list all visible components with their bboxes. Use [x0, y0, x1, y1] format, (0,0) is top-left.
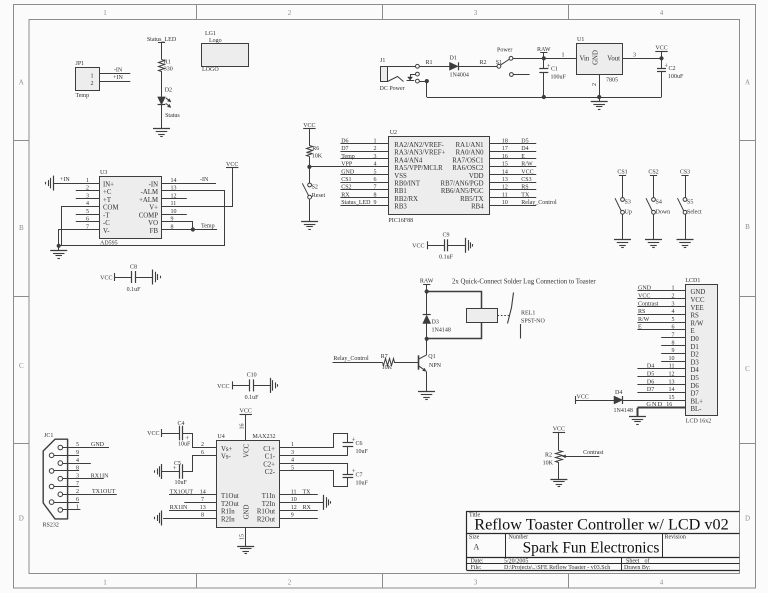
wire switch S3 to ground: [622, 214, 624, 240]
U2 left pin 2 wire (D7): [340, 151, 388, 153]
U4 pin 14 wire TX1OUT: [169, 494, 217, 496]
svg-text:CS3: CS3: [521, 177, 531, 183]
wire D4 to LCD1 pin 15: [623, 400, 686, 402]
svg-text:VCC: VCC: [553, 427, 565, 433]
wire C6 to U4 pin 3: [347, 446, 349, 455]
LCD1 pin 12 wire (D5): [637, 376, 685, 378]
ground right of U4 pin 10: [323, 495, 325, 510]
wire R1 to D2: [161, 71, 163, 97]
wire C8 to ground: [135, 277, 153, 279]
wire J1 sleeve to ground bus: [419, 81, 427, 83]
U4 pin 4 wire to C7: [279, 463, 348, 465]
net flag Status_LED: [158, 42, 165, 44]
svg-text:Vin: Vin: [580, 56, 590, 63]
JC1 pin 8 wire: [54, 470, 79, 472]
junction VCC C2: [659, 56, 663, 60]
svg-text:D6: D6: [647, 379, 654, 385]
U2 right pin 16 wire (E): [489, 158, 536, 160]
ground below S4: [645, 239, 662, 241]
svg-text:Status_LED: Status_LED: [341, 200, 371, 206]
svg-text:RX1IN: RX1IN: [91, 473, 109, 479]
svg-text:8: 8: [201, 513, 204, 519]
svg-text:4: 4: [76, 458, 79, 464]
svg-text:U4: U4: [217, 434, 224, 440]
svg-text:D4: D4: [521, 146, 528, 152]
switch S4 top circle: [652, 198, 656, 202]
svg-text:9: 9: [374, 200, 377, 206]
svg-text:10K: 10K: [312, 153, 323, 159]
ground right of C9: [465, 238, 467, 253]
svg-text:1N4004: 1N4004: [450, 73, 469, 79]
capacitor C8 0.1uF: [131, 271, 133, 283]
svg-text:E: E: [691, 328, 695, 335]
wire junction to S2: [309, 167, 311, 183]
svg-text:8: 8: [374, 192, 377, 198]
U4 pin 13 wire RX1IN: [169, 510, 217, 512]
wire CS3 to switch S5: [685, 175, 687, 197]
svg-text:1: 1: [76, 505, 79, 511]
svg-text:D6: D6: [691, 383, 700, 390]
svg-text:LCD1: LCD1: [685, 278, 700, 284]
svg-text:14: 14: [502, 169, 508, 175]
svg-text:S2: S2: [312, 185, 318, 191]
svg-text:D4: D4: [615, 390, 622, 396]
ground below Q1: [418, 391, 435, 393]
regulator U1 box: [577, 44, 623, 75]
svg-text:100uF: 100uF: [551, 74, 567, 80]
svg-text:7: 7: [201, 497, 204, 503]
node R1 junction circle: [416, 64, 420, 68]
svg-text:RX1IN: RX1IN: [170, 505, 188, 511]
svg-text:R1: R1: [426, 60, 433, 66]
svg-text:Reset: Reset: [312, 193, 326, 199]
svg-text:C1: C1: [551, 67, 558, 73]
ground below U4: [237, 546, 254, 548]
U2 right pin 17 wire (D4): [489, 151, 536, 153]
svg-text:5: 5: [291, 466, 294, 472]
svg-text:LOGO: LOGO: [202, 67, 219, 73]
svg-text:of: of: [645, 557, 650, 564]
ground left of U3 IN+: [53, 176, 55, 191]
svg-text:VCC: VCC: [217, 384, 229, 390]
capacitor C9 0.1uF: [444, 239, 446, 251]
wire D2 to ground: [161, 105, 163, 129]
svg-text:C2-: C2-: [265, 469, 276, 476]
R2 wiper arrow: [563, 456, 600, 458]
svg-text:3: 3: [633, 52, 636, 58]
svg-text:GND: GND: [91, 442, 105, 448]
junction at J1 sleeve: [425, 79, 429, 83]
switch S5 top circle: [683, 198, 687, 202]
svg-text:16: 16: [666, 402, 672, 408]
svg-text:-IN: -IN: [149, 182, 159, 189]
U2 right pin 18 wire (D5): [489, 143, 536, 145]
LCD1 pin 16 wire GND: [638, 407, 686, 409]
U4 pin 3 wire: [279, 455, 348, 457]
svg-text:Vs-: Vs-: [221, 454, 232, 461]
svg-text:11: 11: [502, 192, 508, 198]
U2 right pin 10 wire (Relay_Control): [489, 205, 536, 207]
svg-text:13: 13: [502, 177, 508, 183]
svg-text:10uF: 10uF: [356, 449, 369, 455]
svg-text:File:: File:: [471, 565, 482, 571]
svg-text:D7: D7: [341, 146, 348, 152]
svg-text:CS3: CS3: [680, 170, 690, 176]
wire D1 to S1: [458, 66, 497, 68]
U3 pin 14 -IN wire: [162, 183, 216, 185]
svg-text:RA7/OSC1: RA7/OSC1: [452, 157, 483, 164]
U2 left pin 3 wire (Temp): [340, 158, 388, 160]
switch S2 lever: [302, 183, 308, 195]
svg-text:0.1uF: 0.1uF: [439, 255, 454, 261]
svg-text:DC Power: DC Power: [380, 86, 405, 92]
driver U4 MAX232 box: [217, 441, 280, 528]
svg-text:S5: S5: [687, 199, 693, 205]
diode D4 1N4148: [614, 396, 623, 404]
connector J1 DC power jack: [381, 67, 388, 82]
U3 pin 4 COM wire: [62, 207, 100, 246]
wire ground to C5: [162, 471, 179, 473]
svg-text:D5: D5: [647, 372, 654, 378]
ground below U1: [591, 101, 608, 103]
U2 left pin 6 wire (CS1): [340, 182, 388, 184]
svg-text:VCC: VCC: [577, 394, 589, 400]
JC1 pin 1 circle: [58, 508, 63, 513]
connector JC1 DB9 outline: [43, 439, 67, 519]
svg-text:U2: U2: [390, 130, 397, 136]
svg-text:Relay_Control: Relay_Control: [521, 200, 557, 206]
ground below R2: [550, 479, 567, 481]
svg-text:VCC: VCC: [147, 431, 159, 437]
wire switch S5 to ground: [685, 214, 687, 240]
svg-text:GND: GND: [244, 505, 251, 520]
svg-text:16: 16: [240, 424, 246, 430]
svg-text:330: 330: [164, 67, 173, 73]
wire J1 middle pin bracket: [411, 75, 416, 78]
svg-text:CS2: CS2: [648, 170, 658, 176]
svg-text:Status_LED: Status_LED: [147, 37, 177, 43]
LCD1 pin 8 stub: [661, 345, 686, 347]
svg-text:PIC16F88: PIC16F88: [388, 218, 413, 224]
svg-text:D4: D4: [691, 367, 700, 374]
svg-text:2: 2: [201, 442, 204, 448]
svg-text:D4: D4: [647, 364, 654, 370]
svg-text:C10: C10: [247, 373, 257, 379]
wire C5 to U4 pin 6: [183, 456, 217, 472]
svg-text:R/W: R/W: [691, 320, 704, 327]
svg-text:12: 12: [291, 505, 297, 511]
svg-text:4: 4: [660, 578, 664, 586]
net flag CS1: [619, 175, 626, 177]
svg-text:S3: S3: [625, 199, 631, 205]
svg-text:C8: C8: [130, 264, 137, 270]
switch S1 lever: [500, 57, 513, 65]
svg-text:VCC: VCC: [240, 409, 252, 415]
svg-text:0.1uF: 0.1uF: [127, 287, 142, 293]
switch S1 pole circle: [497, 64, 501, 68]
svg-text:R2: R2: [545, 452, 552, 458]
svg-text:9: 9: [76, 450, 79, 456]
svg-text:D3: D3: [432, 319, 439, 325]
resistor R1: [159, 60, 165, 72]
svg-text:GND: GND: [638, 286, 652, 292]
wire LCD1 pin16 down: [637, 408, 639, 417]
connector JP1 box: [76, 68, 100, 91]
svg-text:5: 5: [76, 442, 79, 448]
svg-text:R1Out: R1Out: [257, 509, 275, 516]
svg-text:RS: RS: [691, 313, 700, 320]
svg-text:100uF: 100uF: [668, 74, 684, 80]
svg-text:VCC: VCC: [100, 275, 112, 281]
svg-text:C1+: C1+: [263, 446, 275, 453]
wire VCC to C8: [115, 277, 132, 279]
ground below S3: [614, 239, 631, 241]
title block border: [467, 511, 740, 513]
wire junction to coil bottom: [427, 323, 482, 339]
U2 right pin 15 wire (R/W): [489, 166, 536, 168]
svg-text:RA5/VPP/MCLR: RA5/VPP/MCLR: [394, 165, 443, 172]
svg-text:9: 9: [291, 513, 294, 519]
switch S2 bottom circle: [308, 195, 312, 199]
junction C1 ground: [542, 95, 546, 99]
wire R2 to ground: [558, 462, 560, 479]
net flag RAW: [540, 52, 547, 54]
switch S5 lever: [678, 198, 685, 211]
svg-text:10K: 10K: [382, 365, 393, 371]
capacitor C1 100uF: [539, 68, 548, 70]
wire ground bus down: [426, 81, 428, 97]
svg-text:Vout: Vout: [607, 56, 620, 63]
svg-text:17: 17: [502, 146, 508, 152]
svg-text:Size: Size: [469, 535, 480, 541]
U4 pin 11 wire TX: [279, 494, 318, 496]
svg-text:RA3/AN3/VREF+: RA3/AN3/VREF+: [394, 150, 445, 157]
svg-text:Reflow Toaster Controller w/ L: Reflow Toaster Controller w/ LCD v02: [474, 515, 728, 533]
svg-text:Down: Down: [656, 209, 671, 215]
svg-text:2: 2: [288, 9, 292, 17]
svg-text:GND: GND: [691, 289, 706, 296]
U3 pin 12 stub: [162, 198, 187, 200]
power flag VCC at R6: [303, 128, 315, 130]
svg-text:1: 1: [562, 52, 565, 58]
svg-text:Date:: Date:: [471, 558, 484, 564]
wire S2 to ground: [309, 199, 311, 222]
wire VCC to U4 pin 16: [245, 415, 247, 441]
svg-text:C: C: [19, 362, 24, 370]
svg-text:A: A: [19, 79, 24, 87]
J1 tip arrow: [408, 77, 413, 80]
LCD1 pin 7 stub: [661, 337, 686, 339]
wire R6 to junction: [309, 157, 311, 167]
svg-text:NPN: NPN: [429, 363, 442, 369]
switch S3 bottom circle: [621, 210, 625, 214]
U3 pin 2 stub: [76, 190, 99, 192]
svg-text:VCC: VCC: [226, 162, 238, 168]
switch S4 bottom circle: [652, 210, 656, 214]
wire RAW to D3 cathode: [426, 292, 428, 315]
JC1 pin 7 wire: [54, 486, 79, 488]
wire VCC to C9: [427, 245, 444, 247]
wire -IN from JP1 pin 1: [100, 73, 131, 75]
svg-text:C2+: C2+: [263, 461, 275, 468]
svg-text:1: 1: [291, 442, 294, 448]
svg-text:RAW: RAW: [537, 47, 551, 53]
svg-text:COM: COM: [103, 205, 119, 212]
svg-text:RB7/AN6/PGD: RB7/AN6/PGD: [441, 181, 484, 188]
svg-text:SPST-NO: SPST-NO: [521, 318, 545, 324]
LCD1 connector box: [686, 285, 718, 416]
junction VO-FB: [191, 227, 195, 231]
wire VCC to C2: [661, 58, 663, 68]
svg-text:3: 3: [474, 578, 478, 586]
svg-text:3: 3: [374, 154, 377, 160]
wire Status_LED to R1: [161, 43, 163, 60]
wire CS1 to switch S3: [622, 175, 624, 197]
svg-text:D6: D6: [341, 138, 348, 144]
svg-text:Temp: Temp: [341, 154, 355, 160]
wire S1 to U1 pin 1: [513, 58, 576, 60]
U4 pin 1 wire to C6: [280, 434, 348, 448]
capacitor C6 10uF: [347, 433, 349, 443]
wire C10 to ground: [253, 385, 270, 387]
svg-text:RA6/OSC2: RA6/OSC2: [452, 165, 484, 172]
svg-text:CS2: CS2: [341, 185, 351, 191]
JC1 pin 4 circle: [58, 461, 63, 466]
svg-text:GND: GND: [593, 50, 600, 65]
svg-text:13: 13: [200, 505, 206, 511]
U4 pin 7 stub: [184, 502, 217, 504]
svg-text:D7: D7: [647, 387, 654, 393]
JC1 pin 9 wire: [54, 455, 79, 457]
wire C2 to ground bus: [661, 72, 663, 97]
svg-text:LCD 16x2: LCD 16x2: [686, 419, 712, 425]
frame column dividers top: [196, 5, 198, 20]
svg-text:-IN: -IN: [114, 67, 123, 73]
J1 sleeve pin circle: [416, 79, 420, 83]
svg-text:1: 1: [103, 578, 107, 586]
svg-text:RA0/AN0: RA0/AN0: [456, 150, 485, 157]
svg-text:12: 12: [502, 185, 508, 191]
svg-text:R/W: R/W: [521, 162, 533, 168]
svg-text:3: 3: [474, 9, 478, 17]
microcontroller U2 box: [389, 137, 490, 215]
svg-text:Revision: Revision: [665, 535, 686, 541]
LCD1 pin 4 wire (RS): [637, 314, 685, 316]
svg-text:Relay_Control: Relay_Control: [333, 356, 369, 362]
svg-text:A: A: [474, 543, 480, 552]
svg-text:RX: RX: [303, 505, 312, 511]
svg-text:4: 4: [374, 162, 377, 168]
svg-text:RA4/AN4: RA4/AN4: [394, 157, 423, 164]
wire RAW flag down: [426, 284, 428, 291]
svg-text:A: A: [745, 79, 750, 87]
svg-text:+ALM: +ALM: [139, 197, 158, 204]
svg-text:COMP: COMP: [139, 212, 158, 219]
ground right of C8: [152, 270, 154, 285]
svg-text:Vs+: Vs+: [221, 446, 233, 453]
diode D3 1N4148: [423, 314, 431, 316]
svg-text:MAX232: MAX232: [253, 434, 276, 440]
svg-text:R1: R1: [164, 59, 171, 65]
frame row dividers right: [740, 140, 756, 142]
svg-text:C6: C6: [356, 441, 363, 447]
svg-text:7: 7: [374, 185, 377, 191]
svg-text:10: 10: [502, 200, 508, 206]
capacitor C7 10uF: [347, 463, 349, 474]
svg-text:5/20/2005: 5/20/2005: [504, 558, 528, 564]
relay contact blade: [508, 293, 514, 324]
net flag CS3: [681, 175, 688, 177]
svg-text:VSS: VSS: [394, 173, 407, 180]
svg-text:15: 15: [240, 534, 246, 540]
svg-text:RS: RS: [638, 309, 645, 315]
svg-text:C9: C9: [442, 233, 449, 239]
junction RAW relay: [425, 289, 429, 293]
U4 pin 5 wire bracket: [280, 471, 348, 487]
capacitor C10 0.1uF: [249, 379, 251, 391]
svg-text:GND: GND: [646, 401, 663, 408]
LED D2: [158, 97, 166, 105]
JC1 pin 5 circle: [58, 445, 63, 450]
U3 pin 10 stub: [162, 214, 187, 216]
switch S1 unused throw circle: [510, 73, 514, 77]
svg-text:8: 8: [76, 466, 79, 472]
LCD1 pin 9 stub: [661, 353, 686, 355]
svg-text:15: 15: [502, 162, 508, 168]
U3 pin 11 V+ wire to VCC: [162, 168, 233, 207]
svg-text:2: 2: [288, 578, 292, 586]
relay coil REL1 box: [467, 309, 498, 323]
transistor Q1 NPN: [418, 355, 420, 369]
svg-text:0.1uF: 0.1uF: [245, 395, 260, 401]
svg-text:IN+: IN+: [103, 182, 114, 189]
svg-text:10uF: 10uF: [356, 481, 369, 487]
wire J1 tip to D1: [387, 66, 449, 68]
svg-text:C1-: C1-: [265, 454, 276, 461]
JC1 pin 2 circle: [58, 492, 63, 497]
U2 right pin 13 wire (CS3): [489, 182, 536, 184]
switch S3 lever: [615, 198, 622, 211]
svg-text:TX: TX: [303, 489, 312, 495]
U4 pin 8 wire to ground: [163, 518, 217, 520]
svg-text:2: 2: [91, 81, 94, 87]
svg-text:Temp: Temp: [201, 224, 215, 230]
svg-text:3: 3: [291, 450, 294, 456]
junction U3 ground: [57, 244, 61, 248]
svg-text:6: 6: [76, 497, 79, 503]
svg-text:VCC: VCC: [244, 443, 251, 457]
svg-text:1: 1: [374, 138, 377, 144]
svg-text:RB4: RB4: [471, 204, 484, 211]
U2 left pin 9 wire (Status_LED): [340, 205, 388, 207]
svg-text:RB6/AN5/PGC: RB6/AN5/PGC: [441, 188, 484, 195]
svg-text:18: 18: [502, 138, 508, 144]
U4 pin 12 wire RX: [279, 510, 318, 512]
wire +IN from JP1 pin 2: [100, 81, 131, 83]
svg-text:Contrast: Contrast: [583, 450, 604, 456]
U3 pin 6 stub: [76, 221, 99, 223]
svg-text:Temp: Temp: [76, 93, 90, 99]
wire CS2 to switch S4: [653, 175, 655, 197]
svg-text:+C: +C: [103, 189, 112, 196]
svg-text:RX: RX: [341, 192, 350, 198]
wire VPP junction to U2 pin 4: [309, 166, 388, 168]
ground below U3: [58, 246, 60, 251]
J1 middle pin circle: [416, 72, 420, 76]
U2 right pin 14 wire (VCC): [489, 174, 536, 176]
svg-text:U1: U1: [577, 37, 584, 43]
U3 pin 3 stub: [76, 198, 99, 200]
